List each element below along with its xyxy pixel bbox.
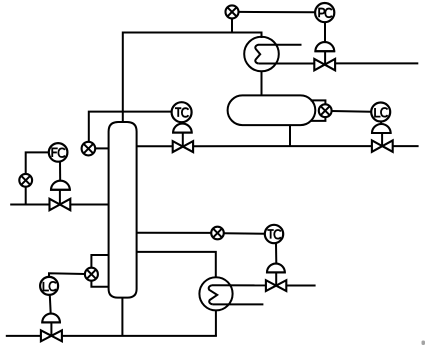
wire: column bottom outlet (121, 298, 123, 336)
wire: FC to valve actuator (59, 162, 61, 183)
wire: column to reboiler riser (137, 252, 216, 277)
wire: bottoms line valve to reboiler (62, 335, 217, 337)
wire: reflux line column to TC valve (137, 145, 173, 147)
wire: bottoms line left segment (6, 335, 41, 337)
node TT bottom sensor (crossed circle) (211, 227, 224, 240)
wire: LT to LC signal (332, 110, 372, 113)
control valve (TC) on steam line (266, 280, 286, 291)
control valve (LC) on bottoms line (41, 330, 62, 341)
wire: column side draw to TT sensor (137, 232, 212, 234)
wire: TT to TC signal (224, 232, 265, 235)
drum level tap bracket (311, 100, 326, 121)
controller LC bottoms (40, 277, 58, 295)
wire: reboiler lower tube line (213, 303, 264, 305)
wire: LT to LC signal (49, 273, 85, 277)
wire: FT tap riser (25, 187, 27, 205)
wire: distillate line after LC valve (393, 145, 419, 147)
reboiler heat exchanger circle (199, 277, 232, 310)
wire: reboiler bottom outlet (215, 310, 217, 336)
valve actuator (LC distillate valve) (371, 124, 392, 146)
wire: feed line valve to column (70, 204, 108, 206)
wire: pressure tap riser (231, 17, 233, 33)
wire: bottom LT lower tap (91, 281, 108, 287)
controller PC (315, 3, 334, 22)
wire: steam line reboiler to valve (212, 284, 266, 286)
node FT flow sensor (crossed circle) (19, 174, 32, 187)
controller TC top (172, 102, 192, 122)
wire: steam line after valve (287, 285, 316, 287)
controller TC bottom (265, 225, 283, 243)
node LT bottom sensor (crossed circle) (85, 268, 98, 281)
reboiler inner tube wave (209, 285, 217, 304)
wire: LC to valve actuator (49, 295, 52, 314)
node PT pressure sensor (crossed circle) (226, 5, 239, 18)
valve actuator (PC valve) (314, 42, 335, 65)
wire: FT to FC signal (26, 152, 49, 174)
control valve (FC) on feed line (50, 199, 71, 210)
wire: coolant upper line from condenser (258, 44, 302, 46)
column vessel (109, 122, 137, 298)
wire: condenser outlet to reflux drum (261, 71, 263, 95)
control valve (TC) on reflux line (173, 141, 193, 152)
control valve (PC) on coolant line (314, 59, 335, 70)
condenser heat exchanger circle (244, 37, 279, 72)
wire: drum bottom outlet to distillate line (289, 125, 291, 146)
node LT drum level sensor (crossed circle) (319, 104, 332, 117)
wire: TC to valve actuator (181, 122, 183, 125)
valve actuator (reflux TC valve) (172, 124, 192, 147)
valve actuator (bottoms LC valve) (41, 314, 61, 336)
node TT column sensor (crossed circle) (82, 142, 96, 156)
wire: LC to valve actuator (380, 122, 382, 126)
control valve (LC) on distillate line (372, 140, 393, 151)
wire: overhead vapor line from column top to condenser (123, 33, 262, 124)
wire: feed line left segment (10, 204, 49, 206)
wire: coolant lower line condenser to valve (258, 63, 314, 65)
smudge artifact bottom right (422, 341, 425, 346)
wire: coolant line after valve (335, 62, 418, 64)
wire: TC to valve actuator (275, 243, 277, 264)
valve actuator (steam TC valve) (266, 264, 286, 286)
wire: reflux/distillate line between valves (193, 145, 372, 147)
condenser inner tube wave (255, 45, 260, 64)
wire: TC signal line to column temperature sensor (89, 112, 172, 142)
controller LC distillate (371, 103, 390, 122)
reflux drum (228, 95, 316, 125)
wire: PC to valve actuator (324, 22, 326, 42)
valve actuator (FC feed valve) (50, 181, 71, 205)
wire: bottom LT upper tap (91, 255, 108, 268)
wire: TT to column wall (95, 147, 108, 149)
wire: PT to PC signal (239, 11, 316, 13)
controller FC (49, 143, 68, 162)
